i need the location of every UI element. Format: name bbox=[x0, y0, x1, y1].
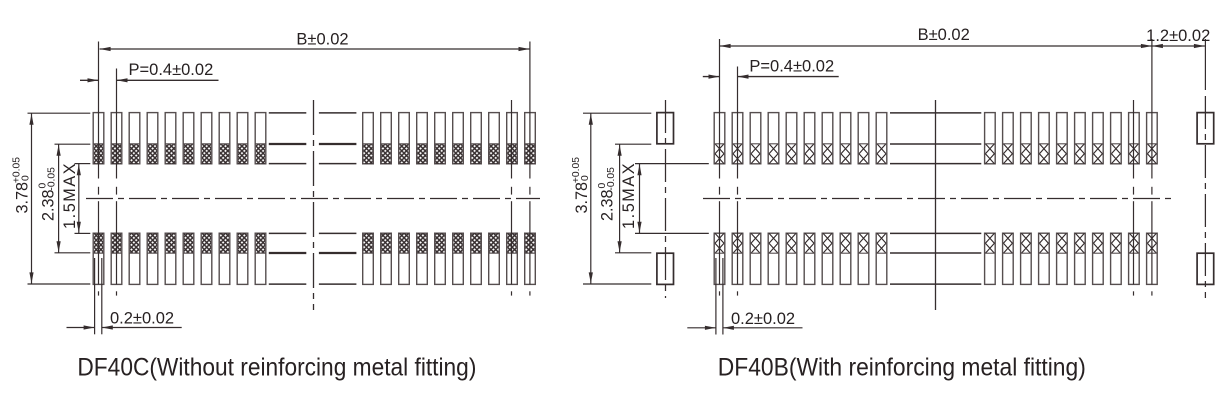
svg-text:3.78: 3.78 bbox=[573, 182, 591, 214]
svg-text:1.5MAX: 1.5MAX bbox=[620, 162, 638, 229]
svg-text:2.38: 2.38 bbox=[599, 189, 617, 221]
svg-text:B±0.02: B±0.02 bbox=[296, 31, 348, 49]
svg-text:DF40C(Without reinforcing meta: DF40C(Without reinforcing metal fitting) bbox=[77, 354, 476, 382]
svg-text:0.2±0.02: 0.2±0.02 bbox=[731, 310, 795, 328]
svg-text:2.38: 2.38 bbox=[39, 189, 57, 221]
svg-text:0.2±0.02: 0.2±0.02 bbox=[110, 310, 174, 328]
svg-text:3.78: 3.78 bbox=[14, 182, 32, 214]
svg-text:B±0.02: B±0.02 bbox=[918, 26, 970, 44]
svg-text:0: 0 bbox=[580, 175, 591, 183]
svg-text:1.5MAX: 1.5MAX bbox=[61, 162, 79, 229]
svg-text:-0.05: -0.05 bbox=[606, 167, 617, 191]
svg-text:-0.05: -0.05 bbox=[47, 167, 58, 191]
svg-text:P=0.4±0.02: P=0.4±0.02 bbox=[129, 61, 214, 79]
svg-text:0: 0 bbox=[21, 175, 32, 183]
svg-text:P=0.4±0.02: P=0.4±0.02 bbox=[749, 58, 834, 76]
svg-text:DF40B(With reinforcing metal f: DF40B(With reinforcing metal fitting) bbox=[718, 354, 1086, 382]
svg-text:1.2±0.02: 1.2±0.02 bbox=[1146, 27, 1210, 45]
